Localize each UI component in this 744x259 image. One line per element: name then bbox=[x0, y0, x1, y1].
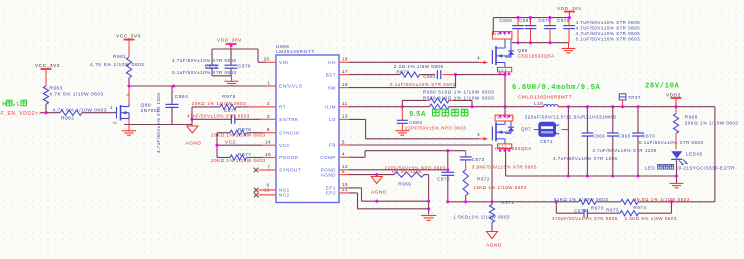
inductor L18 bbox=[534, 101, 563, 107]
node bank rail dots bbox=[516, 16, 571, 19]
svg-text:14: 14 bbox=[265, 140, 271, 145]
transistor Q88 bbox=[479, 62, 488, 64]
node bank bus dots bbox=[516, 41, 551, 44]
net label F_EN_VDD2 bbox=[1, 100, 43, 117]
svg-text:CMLO1365H6R8MTT: CMLO1365H6R8MTT bbox=[518, 94, 572, 100]
svg-text:0.1uF/50V±10% X7R 0603: 0.1uF/50V±10% X7R 0603 bbox=[576, 37, 641, 42]
capacitor C878 bbox=[557, 18, 575, 43]
ground input caps bbox=[212, 76, 239, 86]
svg-text:R969: R969 bbox=[398, 182, 411, 187]
svg-text:HO: HO bbox=[328, 60, 336, 65]
svg-text:Q88: Q88 bbox=[518, 48, 528, 53]
wire EP1 bbox=[339, 188, 429, 201]
svg-text:BST: BST bbox=[326, 72, 336, 77]
wire LED cathode bbox=[676, 159, 678, 183]
capacitor C876 bbox=[172, 49, 251, 76]
svg-text:17: 17 bbox=[342, 69, 348, 74]
node BST/SW junction bbox=[454, 73, 457, 76]
transistor Q89 bbox=[110, 94, 160, 125]
svg-text:13KΩ 1% 1/10W 0603: 13KΩ 1% 1/10W 0603 bbox=[473, 185, 527, 190]
svg-text:3.9NF/50V±10% X7R 0805: 3.9NF/50V±10% X7R 0805 bbox=[472, 164, 537, 169]
ground Q89 bbox=[122, 125, 136, 136]
resistor R983 bbox=[43, 85, 103, 112]
svg-text:20KΩ 1% 1/10W 0603: 20KΩ 1% 1/10W 0603 bbox=[685, 120, 739, 125]
svg-text:0.1uF/50V±10% X7R 0603: 0.1uF/50V±10% X7R 0603 bbox=[639, 140, 704, 145]
capacitor C866 bbox=[582, 105, 606, 177]
wire EN/UVLO bbox=[129, 85, 276, 87]
node SS junction bbox=[190, 118, 193, 121]
svg-text:R968: R968 bbox=[685, 114, 698, 119]
svg-text:4.7uF/50V±5% X7R 1206: 4.7uF/50V±5% X7R 1206 bbox=[156, 93, 161, 153]
node VCC junction bbox=[215, 144, 218, 147]
wire NC2 (no connect) bbox=[254, 193, 276, 198]
svg-text:R979 510Ω 1% 1/10W 0603: R979 510Ω 1% 1/10W 0603 bbox=[423, 95, 495, 100]
ground main bbox=[421, 215, 436, 217]
svg-text:20: 20 bbox=[264, 57, 270, 62]
resistor R973 bbox=[606, 208, 677, 222]
wire C871 column bbox=[567, 107, 569, 176]
svg-text:R978: R978 bbox=[396, 70, 409, 75]
ground bank bbox=[562, 43, 576, 53]
svg-text:28V/10A: 28V/10A bbox=[645, 83, 679, 91]
svg-text:1.5KΩ±1% 1/10W 0603: 1.5KΩ±1% 1/10W 0603 bbox=[453, 214, 510, 219]
svg-text:20KΩ 1% 1/10W 0603: 20KΩ 1% 1/10W 0603 bbox=[211, 133, 266, 138]
resistor R977 bbox=[211, 152, 266, 163]
svg-text:FB: FB bbox=[329, 143, 336, 148]
svg-text:20KΩ 1% 1/10W 0603: 20KΩ 1% 1/10W 0603 bbox=[211, 158, 266, 163]
ground AGND (R971) bbox=[486, 232, 502, 249]
svg-text:R962: R962 bbox=[61, 116, 74, 122]
ground LED bbox=[670, 182, 684, 184]
node C871 top bbox=[567, 105, 570, 108]
capacitor C881 bbox=[519, 18, 536, 43]
wire ground column bbox=[427, 175, 430, 215]
resistor R968 bbox=[673, 107, 738, 150]
svg-text:R977: R977 bbox=[238, 152, 251, 158]
svg-text:AGND: AGND bbox=[186, 141, 202, 147]
ground AGND (middle) bbox=[371, 177, 387, 196]
svg-text:RT: RT bbox=[279, 105, 286, 110]
svg-text:11: 11 bbox=[342, 101, 348, 106]
svg-text:2: 2 bbox=[113, 122, 118, 125]
wire Q89 source bbox=[124, 119, 193, 125]
wire VIN rail bbox=[212, 49, 276, 62]
svg-text:4: 4 bbox=[477, 132, 480, 137]
svg-text:EP2: EP2 bbox=[326, 191, 336, 196]
resistor R969 bbox=[392, 169, 424, 187]
resistor R978 bbox=[339, 64, 444, 77]
svg-text:2.4KΩ 5% 1/8W 0603: 2.4KΩ 5% 1/8W 0603 bbox=[625, 216, 677, 221]
wire SW bbox=[339, 75, 456, 88]
node ILIM right bbox=[470, 105, 473, 108]
svg-text:49.9Ω 1% 1/10W 0603: 49.9Ω 1% 1/10W 0603 bbox=[634, 197, 690, 202]
power VCC_3V3 (top) bbox=[116, 33, 141, 57]
wire Q87 drain bbox=[504, 107, 506, 116]
wire SYNOUT (no connect) bbox=[254, 168, 276, 173]
wire compensation branch bbox=[556, 202, 671, 213]
capacitor C879 bbox=[538, 18, 555, 43]
svg-text:0.1uF/50V±10% X7R 0603: 0.1uF/50V±10% X7R 0603 bbox=[172, 70, 237, 75]
svg-text:22PF/50V±5% NPO 0603: 22PF/50V±5% NPO 0603 bbox=[405, 125, 466, 130]
svg-text:C870: C870 bbox=[642, 133, 655, 138]
IC U956 LM25145RGYT bbox=[264, 44, 348, 203]
svg-text:Q87: Q87 bbox=[521, 127, 531, 132]
svg-text:C874: C874 bbox=[574, 209, 587, 214]
svg-text:ILIM: ILIM bbox=[325, 104, 336, 109]
svg-text:4.7uF/50V±10% X7R 0805: 4.7uF/50V±10% X7R 0805 bbox=[576, 26, 641, 31]
wire FB bbox=[339, 145, 492, 202]
svg-text:C878: C878 bbox=[557, 18, 570, 23]
wire VIN bank rail bbox=[493, 18, 569, 35]
svg-text:NC2: NC2 bbox=[279, 193, 290, 198]
node VDD2/R968 bbox=[674, 105, 677, 108]
LED LED45 bbox=[645, 151, 735, 170]
svg-text:5: 5 bbox=[342, 139, 345, 144]
wire AGND pin bbox=[339, 174, 429, 176]
svg-text:SYNCIN: SYNCIN bbox=[279, 130, 299, 135]
svg-text:9.5A: 9.5A bbox=[409, 111, 426, 118]
wire ILIM bbox=[339, 106, 505, 108]
wire Q89 drain bbox=[128, 86, 130, 103]
capacitor C873 bbox=[460, 151, 537, 170]
capacitor C874 bbox=[552, 209, 618, 222]
svg-text:LED: LED bbox=[645, 165, 655, 170]
svg-text:20KΩ 1% 1/10W 0603: 20KΩ 1% 1/10W 0603 bbox=[192, 101, 247, 106]
svg-text:VCC: VCC bbox=[225, 139, 237, 145]
svg-text:TP37: TP37 bbox=[628, 95, 641, 100]
svg-text:6.8UH/9.4mohm/9.5A: 6.8UH/9.4mohm/9.5A bbox=[512, 84, 601, 92]
svg-text:1 2 3: 1 2 3 bbox=[499, 68, 507, 72]
svg-text:4.7K 5% 1/10W 0603: 4.7K 5% 1/10W 0603 bbox=[53, 107, 107, 113]
wire output ground bus bbox=[506, 175, 677, 177]
svg-text:SW: SW bbox=[328, 85, 337, 90]
svg-text:H: H bbox=[2, 102, 6, 108]
resistor R980 bbox=[402, 89, 494, 106]
svg-text:LED45: LED45 bbox=[686, 151, 703, 156]
node C884 tap bbox=[172, 84, 175, 87]
wire SW rail bbox=[505, 106, 715, 108]
svg-text:7: 7 bbox=[268, 164, 271, 169]
svg-text:C880: C880 bbox=[500, 18, 513, 23]
svg-text:U956: U956 bbox=[276, 44, 289, 50]
svg-text:C865: C865 bbox=[618, 133, 631, 138]
svg-text:R971: R971 bbox=[501, 200, 514, 205]
node C871 bottom bbox=[567, 174, 570, 177]
wire NC1 (no connect) bbox=[254, 188, 276, 193]
svg-text:10: 10 bbox=[265, 152, 271, 157]
svg-text:R970: R970 bbox=[591, 206, 604, 211]
svg-text:2: 2 bbox=[267, 101, 270, 106]
node AGND triangle tap bbox=[375, 173, 378, 176]
resistor R975 bbox=[192, 94, 247, 110]
node COMP branch bbox=[446, 149, 449, 152]
svg-text:18: 18 bbox=[342, 57, 348, 62]
resistor R961 bbox=[90, 54, 144, 86]
svg-text:C882: C882 bbox=[423, 74, 436, 79]
ground AGND (left) bbox=[186, 126, 202, 147]
svg-text:R975: R975 bbox=[222, 94, 235, 100]
node SW rail bbox=[503, 105, 506, 108]
node EP bus bbox=[375, 200, 378, 203]
svg-text:SYNOUT: SYNOUT bbox=[279, 168, 301, 173]
wire VCC bbox=[217, 133, 276, 158]
wire HO bbox=[339, 61, 479, 63]
node ILIM left bbox=[401, 105, 404, 108]
svg-text:COMP: COMP bbox=[320, 155, 336, 160]
wire SYNCIN bbox=[217, 132, 276, 134]
svg-text:R980 510Ω 1% 1/10W 0603: R980 510Ω 1% 1/10W 0603 bbox=[423, 89, 495, 94]
svg-text:EN/UVLO: EN/UVLO bbox=[279, 84, 303, 89]
svg-text:4.7K 5% 1/10W 0603: 4.7K 5% 1/10W 0603 bbox=[49, 91, 103, 97]
capacitor C872 bbox=[385, 151, 455, 202]
svg-text:5 6 7 8: 5 6 7 8 bbox=[497, 116, 508, 120]
node EN/R961/Q89 bbox=[127, 84, 130, 87]
power VDD_36V (top right) bbox=[557, 6, 582, 18]
value labels input bank bbox=[576, 20, 641, 42]
svg-text:PGOOD: PGOOD bbox=[279, 155, 299, 160]
svg-text:C884: C884 bbox=[175, 94, 188, 100]
svg-text:470pF/50V±10% X7R 0805: 470pF/50V±10% X7R 0805 bbox=[552, 216, 618, 221]
svg-text:LO: LO bbox=[329, 117, 336, 122]
annotation inductor spec bbox=[512, 84, 601, 100]
node PGND/C872 bbox=[446, 168, 449, 171]
svg-text:3: 3 bbox=[267, 114, 270, 119]
wire FB node bbox=[448, 201, 715, 203]
svg-text:Q89: Q89 bbox=[141, 103, 152, 109]
transistor Q87 bbox=[479, 138, 488, 140]
resistor R972 bbox=[463, 170, 527, 202]
capacitor C877 bbox=[187, 108, 250, 124]
power VCC_3V3 (left) bbox=[35, 63, 60, 86]
svg-text:4: 4 bbox=[342, 152, 345, 157]
resistor R970 bbox=[554, 197, 609, 211]
wire output sense bbox=[714, 107, 716, 202]
wire AGND column left bbox=[191, 107, 193, 126]
test point TP37 bbox=[619, 94, 641, 108]
node VDD rail bbox=[229, 44, 232, 47]
svg-text:2.2Ω 1% 1/8W 0805: 2.2Ω 1% 1/8W 0805 bbox=[394, 64, 444, 69]
svg-text:13: 13 bbox=[342, 114, 348, 119]
wire LO bbox=[339, 119, 479, 138]
capacitor C882 bbox=[390, 70, 505, 87]
svg-text:VCC: VCC bbox=[279, 143, 290, 148]
wire COMP bbox=[339, 151, 466, 158]
node EN junction bbox=[44, 111, 47, 114]
svg-text:VCC_3V3: VCC_3V3 bbox=[116, 33, 141, 39]
svg-text:1: 1 bbox=[110, 105, 113, 110]
svg-text:19: 19 bbox=[342, 82, 348, 87]
svg-text:C872: C872 bbox=[437, 177, 450, 182]
svg-text:R961: R961 bbox=[113, 54, 126, 60]
svg-text:0.1uF/50V±10% X7R 0603: 0.1uF/50V±10% X7R 0603 bbox=[390, 82, 456, 87]
svg-text:R972: R972 bbox=[477, 176, 490, 181]
capacitor C880 bbox=[500, 18, 524, 43]
svg-text:1: 1 bbox=[268, 80, 271, 85]
ground C883 bbox=[395, 130, 409, 132]
capacitor C871 bbox=[525, 114, 617, 144]
capacitor C875 bbox=[172, 49, 237, 76]
svg-text:4.7uF/50V±10% X7R 0805: 4.7uF/50V±10% X7R 0805 bbox=[576, 31, 641, 36]
svg-text:4.7uF/50V±10% X7R 1206: 4.7uF/50V±10% X7R 1206 bbox=[592, 148, 657, 153]
svg-text:CSD18563Q5A: CSD18563Q5A bbox=[518, 53, 556, 58]
svg-text:L18: L18 bbox=[534, 101, 543, 106]
value labels output caps bbox=[553, 140, 704, 161]
resistor R971 bbox=[453, 200, 514, 232]
svg-text:C866: C866 bbox=[592, 133, 605, 138]
power VDD_36V (left) bbox=[217, 38, 242, 49]
svg-text:47nF/50V±10% X7R 0603: 47nF/50V±10% X7R 0603 bbox=[187, 113, 250, 118]
capacitor C870 bbox=[632, 105, 655, 177]
node Q88 source/BST bbox=[503, 73, 506, 76]
svg-text:8: 8 bbox=[267, 127, 270, 132]
svg-text:51KΩ 1% 1/10W 0603: 51KΩ 1% 1/10W 0603 bbox=[554, 197, 609, 202]
svg-text:C873: C873 bbox=[472, 157, 485, 162]
svg-text:19-21SYGC/S530-E2/TR: 19-21SYGC/S530-E2/TR bbox=[676, 165, 736, 170]
wire RT bbox=[192, 106, 276, 108]
node LED/bus bbox=[675, 174, 678, 177]
capacitor C865 bbox=[607, 105, 631, 177]
wire Q88 source to SW bbox=[504, 72, 506, 107]
wire Q87 source down bbox=[505, 148, 507, 176]
svg-text:F_EN_VDD2>>: F_EN_VDD2>> bbox=[1, 111, 43, 117]
svg-text:4.7uF/50V±10% X7R 0805: 4.7uF/50V±10% X7R 0805 bbox=[172, 58, 237, 63]
svg-text:3: 3 bbox=[126, 94, 131, 97]
wire PGOOD bbox=[217, 157, 276, 159]
svg-text:C871: C871 bbox=[540, 139, 553, 144]
wire bank ground bus bbox=[512, 42, 569, 44]
svg-text:R973: R973 bbox=[606, 208, 619, 213]
svg-text:VIN: VIN bbox=[279, 60, 288, 65]
svg-text:4: 4 bbox=[477, 56, 480, 61]
resistor R974 bbox=[621, 197, 690, 210]
wire EN input bbox=[40, 112, 116, 114]
svg-text:AGND: AGND bbox=[321, 172, 336, 177]
svg-text:220uF/50V/12.5*12.5/URZ1H331MH: 220uF/50V/12.5*12.5/URZ1H331MHD bbox=[525, 114, 617, 119]
svg-text:4.7uF/50V±10% X7R 1206: 4.7uF/50V±10% X7R 1206 bbox=[553, 156, 618, 161]
wire PGND bbox=[339, 169, 448, 171]
svg-text:AGND: AGND bbox=[486, 242, 502, 248]
resistor R962 bbox=[53, 107, 107, 121]
svg-text:R974: R974 bbox=[633, 205, 646, 210]
svg-text:AGND: AGND bbox=[371, 189, 387, 195]
svg-text:4.7K 5% 1/10W 0603: 4.7K 5% 1/10W 0603 bbox=[90, 62, 144, 68]
wire SS/TRK bbox=[192, 118, 276, 120]
svg-text:SS/TRK: SS/TRK bbox=[279, 117, 299, 122]
power VDD2 bbox=[666, 92, 682, 106]
capacitor C883 bbox=[397, 107, 466, 131]
svg-text:LM25145RGYT: LM25145RGYT bbox=[276, 49, 315, 55]
svg-text:4.7uF/50V±10% X7R 0805: 4.7uF/50V±10% X7R 0805 bbox=[576, 20, 641, 25]
node FB wire dots bbox=[446, 200, 673, 203]
svg-text:VDD_36V: VDD_36V bbox=[217, 38, 242, 44]
svg-text:0Ω SC-1206: 0Ω SC-1206 bbox=[392, 169, 422, 174]
resistor R979 bbox=[423, 95, 495, 109]
svg-text:C875: C875 bbox=[205, 63, 218, 68]
svg-text:C876: C876 bbox=[238, 64, 251, 69]
capacitor C884 bbox=[156, 86, 188, 153]
wire EP2 bbox=[339, 193, 429, 209]
svg-text:R983: R983 bbox=[49, 85, 62, 91]
svg-text:L: L bbox=[17, 102, 21, 108]
resistor R976 bbox=[211, 127, 266, 137]
svg-text:CSD18563Q5A: CSD18563Q5A bbox=[495, 146, 533, 151]
